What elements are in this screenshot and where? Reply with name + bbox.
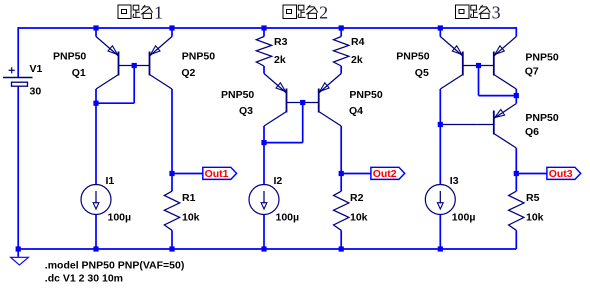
flag Out1 bbox=[203, 167, 237, 179]
junction bottom rail I3 bbox=[438, 246, 443, 251]
ground symbol bbox=[17, 249, 19, 257]
wire R5 to ground rail bbox=[515, 230, 517, 249]
junction bottom rail I2 bbox=[261, 246, 266, 251]
flag Out2 bbox=[371, 167, 405, 179]
wire Q3 collector down bbox=[263, 126, 265, 185]
junction node Out3 bbox=[514, 171, 519, 176]
svg-text:I3: I3 bbox=[450, 175, 459, 187]
junction base circuit 2 bbox=[300, 100, 305, 105]
junction ground at bottom rail bbox=[16, 246, 21, 251]
svg-text:2: 2 bbox=[319, 3, 328, 23]
junction Q7 collector node bbox=[514, 93, 519, 98]
wire Q7 collector to tie bbox=[515, 89, 517, 96]
svg-text:Q1: Q1 bbox=[72, 67, 86, 79]
svg-text:.dc V1 2 30 10m: .dc V1 2 30 10m bbox=[45, 273, 123, 285]
resistor R1 bbox=[164, 191, 179, 230]
wire base tie circuit 3 bbox=[478, 66, 480, 96]
svg-text:100µ: 100µ bbox=[452, 212, 476, 224]
title 回路 3 bbox=[455, 5, 468, 19]
junction base circuit 3 bbox=[476, 63, 481, 68]
title 回路 2 bbox=[283, 5, 296, 19]
title 回路 1 bbox=[118, 5, 131, 19]
transistor Q7 bbox=[494, 37, 517, 57]
junction bottom rail R2 bbox=[339, 246, 344, 251]
svg-text:PNP50: PNP50 bbox=[525, 112, 558, 124]
wire R3 to Q3 emitter bbox=[263, 66, 265, 74]
current source I3 bbox=[425, 185, 455, 215]
wire Q2 collector to Out1 node bbox=[171, 89, 173, 191]
svg-text:2k: 2k bbox=[351, 54, 363, 66]
transistor Q1 bbox=[96, 37, 119, 57]
junction base circuit 1 bbox=[132, 63, 137, 68]
resistor R5 bbox=[509, 191, 524, 230]
svg-text:PNP50: PNP50 bbox=[53, 51, 86, 63]
wire Q2 emitter stub bbox=[171, 28, 173, 37]
svg-text:R5: R5 bbox=[526, 192, 540, 204]
wire R1 to ground rail bbox=[171, 230, 173, 249]
wire base tie circuit 1 bbox=[133, 66, 135, 104]
battery V1 bottom plate bbox=[12, 82, 28, 86]
wire I1 to ground rail bbox=[95, 215, 97, 250]
svg-text:10k: 10k bbox=[526, 212, 544, 224]
junction top rail R3 bbox=[261, 25, 266, 30]
wire R4 top stub bbox=[340, 28, 342, 37]
svg-text:30: 30 bbox=[30, 86, 42, 98]
wire Q1 collector to I1 bbox=[95, 103, 97, 184]
wire Q1 emitter stub bbox=[95, 28, 97, 37]
svg-text:R1: R1 bbox=[182, 192, 196, 204]
junction node Out1 bbox=[169, 171, 174, 176]
svg-text:Out1: Out1 bbox=[205, 168, 229, 180]
junction Q6 base bbox=[438, 122, 443, 127]
svg-text:PNP50: PNP50 bbox=[182, 51, 215, 63]
flag Out3 bbox=[547, 167, 581, 179]
wire Q6 collector to Out3 node bbox=[515, 148, 517, 191]
transistor Q4 bbox=[319, 74, 342, 94]
svg-text:PNP50: PNP50 bbox=[396, 51, 429, 63]
wire R3 top stub bbox=[263, 28, 265, 37]
wire Q7 emitter stub from rail corner bbox=[515, 27, 517, 36]
junction Q1 collector tie bbox=[93, 101, 98, 106]
current source I1 bbox=[95, 184, 97, 186]
svg-text:PNP50: PNP50 bbox=[221, 89, 254, 101]
svg-text:R4: R4 bbox=[351, 36, 365, 48]
wire to Out1 flag bbox=[172, 173, 203, 175]
svg-text:I1: I1 bbox=[106, 175, 115, 187]
svg-text:Out3: Out3 bbox=[549, 168, 573, 180]
svg-text:I2: I2 bbox=[274, 175, 283, 187]
wire I2 to ground rail bbox=[263, 215, 265, 250]
battery V1 top plate and + mark bbox=[3, 77, 33, 79]
wire V1 bottom to ground rail bbox=[17, 86, 19, 249]
svg-text:Q7: Q7 bbox=[525, 66, 539, 78]
svg-text:1: 1 bbox=[154, 3, 163, 23]
svg-text:Q3: Q3 bbox=[239, 105, 253, 117]
junction bottom rail I1 bbox=[93, 246, 98, 251]
svg-text:2k: 2k bbox=[274, 54, 286, 66]
svg-text:PNP50: PNP50 bbox=[525, 52, 558, 64]
wire Q4 collector to Out2 node bbox=[340, 126, 342, 191]
wire bottom ground rail bbox=[18, 248, 516, 250]
svg-text:Q5: Q5 bbox=[415, 67, 429, 79]
wire top supply rail bbox=[18, 27, 516, 29]
junction top rail R4 bbox=[339, 25, 344, 30]
svg-text:Q4: Q4 bbox=[349, 105, 363, 117]
resistor R3 bbox=[256, 37, 271, 67]
wire to Out3 flag bbox=[516, 173, 547, 175]
resistor R2 bbox=[334, 191, 349, 230]
transistor Q5 bbox=[440, 37, 463, 57]
svg-text:PNP50: PNP50 bbox=[349, 89, 382, 101]
svg-text:Q2: Q2 bbox=[181, 67, 195, 79]
wire I3 to ground rail bbox=[439, 215, 441, 250]
junction top rail Q2 bbox=[169, 25, 174, 30]
wire Q5 collector down bbox=[439, 89, 441, 185]
wire Q5 emitter stub bbox=[439, 28, 441, 37]
svg-text:100µ: 100µ bbox=[108, 212, 132, 224]
wire Q1 collector down to tie junction bbox=[95, 89, 97, 103]
svg-text:R2: R2 bbox=[350, 192, 364, 204]
junction node Out2 bbox=[339, 171, 344, 176]
wire to Out2 flag bbox=[341, 173, 371, 175]
svg-text:3: 3 bbox=[492, 3, 501, 23]
svg-text:10k: 10k bbox=[350, 212, 368, 224]
wire left branch to V1 bbox=[17, 27, 19, 77]
wire R4 to Q4 emitter bbox=[340, 66, 342, 74]
svg-text:R3: R3 bbox=[274, 36, 288, 48]
transistor Q3 bbox=[264, 74, 287, 94]
svg-text:.model PNP50 PNP(VAF=50): .model PNP50 PNP(VAF=50) bbox=[45, 260, 185, 272]
svg-text:V1: V1 bbox=[30, 63, 43, 75]
wire R2 to ground rail bbox=[340, 230, 342, 249]
junction top rail Q1 bbox=[93, 25, 98, 30]
junction Q3 collector tie bbox=[261, 140, 266, 145]
svg-text:Out2: Out2 bbox=[373, 168, 397, 180]
svg-text:Q6: Q6 bbox=[525, 126, 539, 138]
svg-text:100µ: 100µ bbox=[276, 212, 300, 224]
transistor Q6 bbox=[515, 96, 517, 104]
transistor Q2 bbox=[150, 37, 173, 57]
current source I2 bbox=[249, 185, 279, 215]
svg-text:10k: 10k bbox=[182, 212, 200, 224]
wire Q6 base to Q5 collector line bbox=[440, 124, 478, 126]
resistor R4 bbox=[334, 37, 349, 67]
junction top rail Q5 bbox=[438, 25, 443, 30]
junction bottom rail R1 bbox=[169, 246, 174, 251]
wire base tie circuit 2 bbox=[302, 103, 304, 143]
